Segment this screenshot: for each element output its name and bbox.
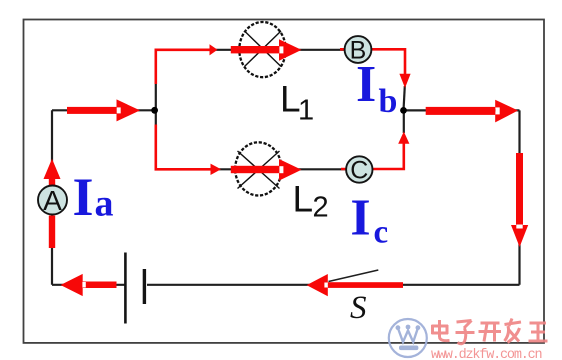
ammeter C: [346, 156, 372, 184]
svg-text:2: 2: [313, 192, 329, 224]
ammeter A: [38, 185, 67, 216]
lamp L2: [235, 142, 281, 195]
thick arrow: right junction to right corner: [426, 100, 518, 123]
svg-text:I: I: [350, 190, 370, 247]
wire: bottom from battery to right corner: [147, 284, 520, 286]
thick arrow: left top horizontal into junction: [67, 99, 140, 121]
wire: branch 2 (lower) left vertical and horizontal through L2: [156, 110, 346, 169]
watermark logo W glyph: [396, 325, 421, 351]
wire: top-left horizontal (node in to left junction): [52, 109, 152, 111]
wire: right junction to right corner: [404, 109, 520, 111]
wire: bottom-left to battery: [52, 284, 125, 286]
svg-text:I: I: [73, 167, 94, 227]
wire: branch 2 from right junction down to C arrow: [403, 110, 405, 133]
svg-text:a: a: [95, 183, 114, 225]
svg-text:C: C: [350, 156, 368, 184]
battery long plate: [124, 253, 127, 324]
node: left junction: [151, 107, 158, 114]
svg-text:L: L: [293, 179, 314, 220]
switch S blade: [329, 270, 379, 282]
watermark chinese char 5 (wang): [529, 323, 548, 341]
thick arrow: bottom left pointing left (into battery side): [61, 274, 117, 296]
svg-text:www.dzkfw.com.cn: www.dzkfw.com.cn: [431, 348, 542, 360]
thick arrow through lamp L2: [231, 159, 302, 181]
thick arrow: right vertical downward: [511, 153, 528, 247]
watermark logo W circle: [389, 319, 427, 357]
node: right junction: [400, 107, 407, 114]
bent red arrow: from ammeter C up to right junction: [341, 143, 404, 169]
wire: right vertical: [518, 110, 520, 284]
svg-text:I: I: [356, 56, 376, 113]
wire: branch 1 (upper) left vertical and horizontal through L1: [156, 50, 345, 111]
bent red arrow: from ammeter B to right junction: [340, 49, 405, 74]
bent red arrow: branch 2 entry (current into L2 branch): [156, 125, 211, 170]
svg-text:b: b: [379, 83, 398, 120]
watermark chinese char 1 (dian): [432, 320, 450, 341]
wire: branch 1 from B down to right junction: [404, 86, 405, 110]
blue label Ib: [356, 56, 397, 120]
svg-text:c: c: [374, 215, 389, 251]
watermark chinese char 3 (kai): [479, 323, 502, 342]
thick arrow through lamp L1: [231, 39, 302, 61]
blue label Ia: [73, 167, 114, 227]
current arrow red bar below ammeter A: [49, 216, 55, 249]
svg-text:S: S: [350, 290, 367, 326]
watermark chinese char 2 (zi): [456, 321, 475, 344]
ammeter B: [345, 36, 372, 64]
battery short plate: [143, 269, 146, 304]
watermark chinese char 4 (fa): [505, 319, 522, 343]
svg-text:A: A: [43, 185, 62, 216]
lamp L1: [239, 22, 285, 77]
current arrow Ia thick up-arrow above ammeter A: [44, 159, 61, 187]
wire: left vertical through ammeter A: [51, 110, 53, 284]
blue label Ic: [350, 190, 388, 251]
bent red arrow: branch 1 entry (current into L1 branch): [156, 50, 210, 84]
svg-text:1: 1: [298, 95, 314, 127]
thick arrow: bottom right pointing left (through switch): [307, 274, 403, 296]
